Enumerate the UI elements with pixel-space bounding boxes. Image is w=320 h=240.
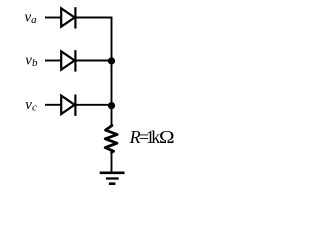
svg-text:R=1kΩ: R=1kΩ xyxy=(129,127,175,147)
